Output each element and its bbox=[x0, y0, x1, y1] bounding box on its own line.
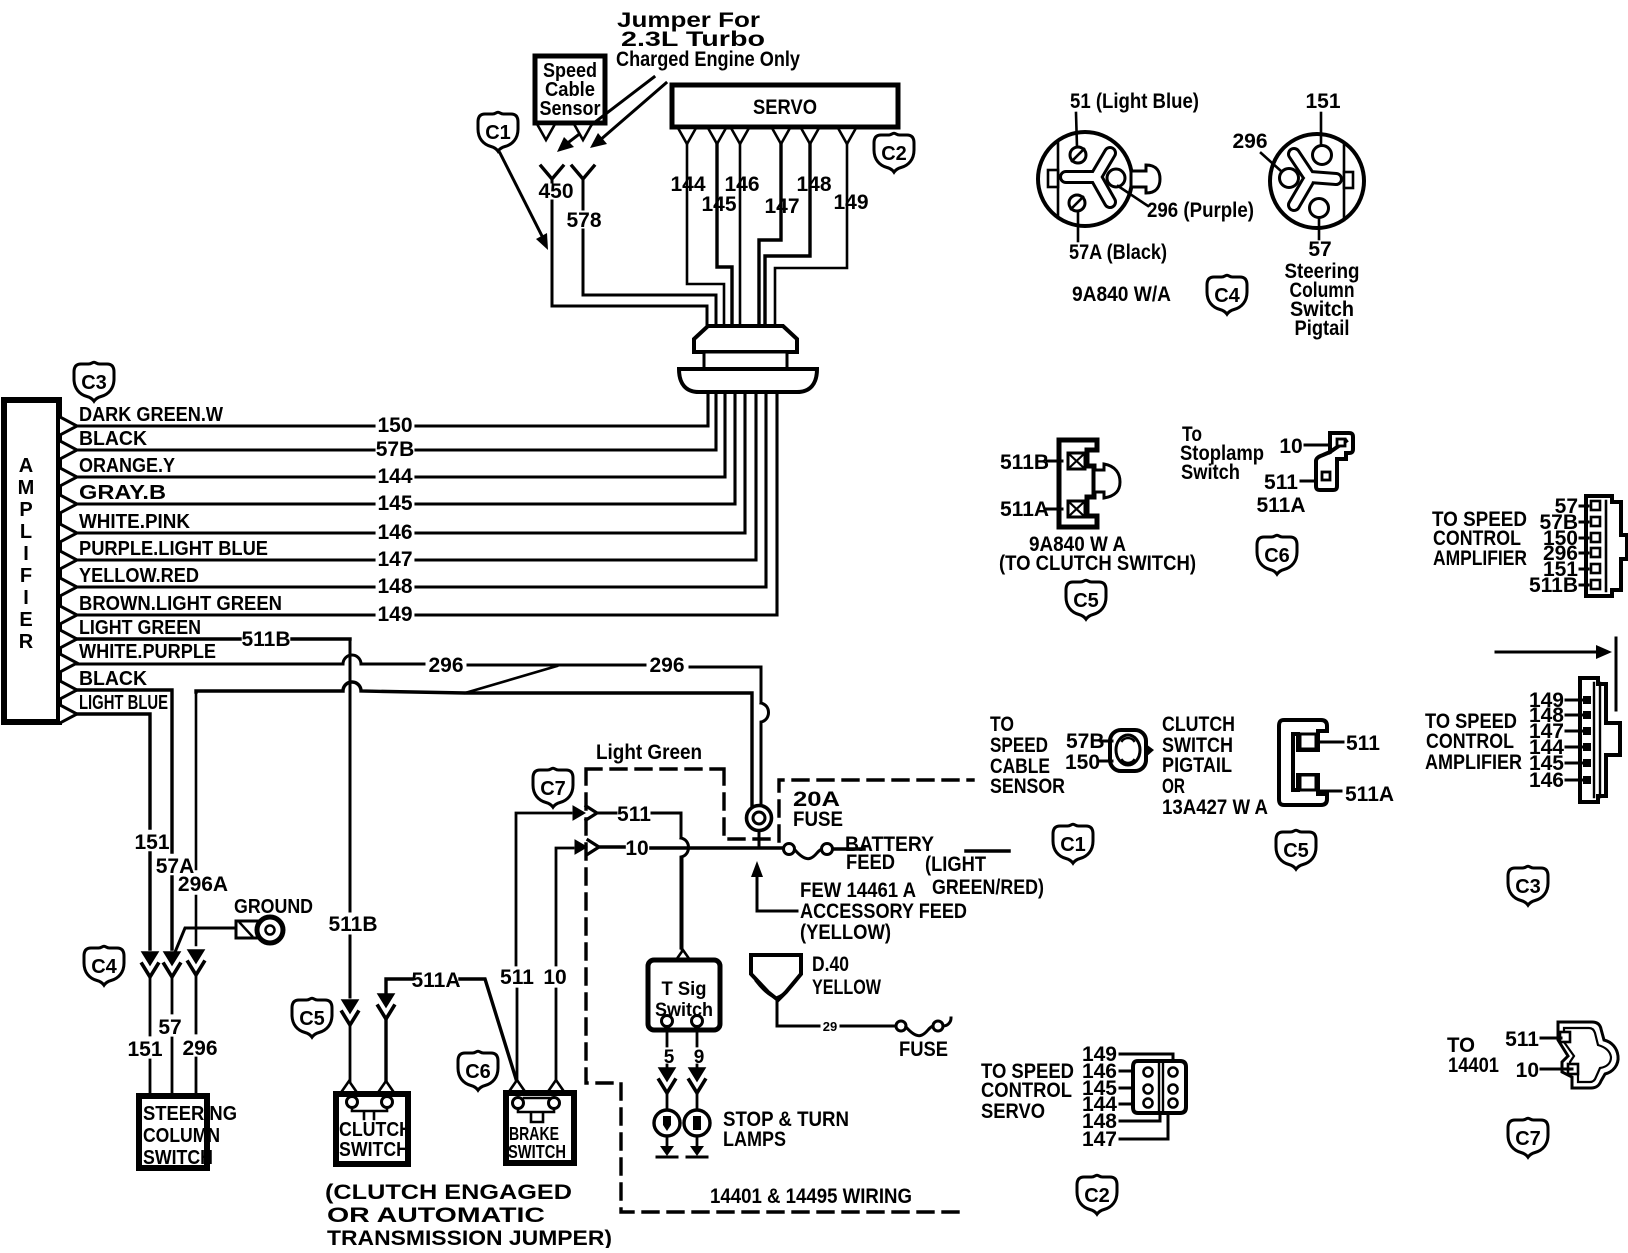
C7 arrows 10 bbox=[575, 840, 587, 854]
svg-text:SWITCH: SWITCH bbox=[143, 1146, 213, 1169]
label 10 14401 bbox=[1516, 1059, 1572, 1082]
label to speed control servo bbox=[981, 1060, 1074, 1123]
wire 147 bbox=[77, 392, 756, 560]
svg-text:LIGHT GREEN: LIGHT GREEN bbox=[79, 616, 201, 639]
pin label 150 upper bbox=[1543, 527, 1588, 550]
svg-text:FEW 14461 A: FEW 14461 A bbox=[800, 879, 916, 902]
svg-text:L: L bbox=[20, 521, 32, 543]
wire 150 bbox=[77, 392, 708, 426]
amplifier pin ORANGE.Y bbox=[60, 468, 77, 486]
label 296 plug bbox=[1232, 130, 1281, 171]
servo pin 145 bbox=[708, 128, 726, 144]
wire 146 bbox=[77, 392, 745, 533]
amplifier pin BLACK bbox=[60, 441, 77, 459]
svg-text:GRAY.B: GRAY.B bbox=[79, 481, 166, 504]
svg-text:C6: C6 bbox=[1264, 545, 1290, 567]
D.40 connector cup bbox=[751, 955, 801, 1000]
svg-text:F: F bbox=[20, 565, 32, 587]
svg-text:YELLOW: YELLOW bbox=[812, 976, 881, 999]
connector C7 shield left bbox=[533, 768, 573, 807]
svg-text:511B: 511B bbox=[1529, 574, 1578, 597]
pin label 144 lower bbox=[1529, 736, 1582, 759]
svg-text:511B: 511B bbox=[328, 913, 377, 936]
svg-text:C5: C5 bbox=[1073, 590, 1099, 612]
svg-text:149: 149 bbox=[377, 603, 412, 626]
svg-text:9A840 W/A: 9A840 W/A bbox=[1072, 283, 1171, 306]
wire 148 bbox=[77, 392, 766, 587]
clutch switch box bbox=[336, 1094, 412, 1164]
wire 450 chevron bbox=[541, 166, 563, 179]
svg-text:CONTROL: CONTROL bbox=[981, 1079, 1072, 1102]
wire 145 bbox=[77, 392, 735, 504]
wire 29 bbox=[777, 1002, 896, 1026]
servo wire 148 bbox=[765, 144, 810, 326]
wire 296 to switch bbox=[195, 975, 198, 1096]
speed cable sensor pin 1 bbox=[537, 124, 555, 140]
svg-text:T Sig: T Sig bbox=[662, 979, 707, 1000]
svg-text:144: 144 bbox=[377, 465, 412, 488]
svg-text:C6: C6 bbox=[465, 1061, 491, 1083]
svg-text:150: 150 bbox=[1065, 751, 1100, 774]
connector C6 shield right bbox=[1257, 535, 1297, 574]
svg-text:C1: C1 bbox=[485, 122, 511, 144]
wire 149 bbox=[77, 392, 777, 615]
label 150 c1 bbox=[1065, 751, 1112, 774]
svg-text:151: 151 bbox=[127, 1038, 162, 1061]
connector C1 shield right bbox=[1053, 824, 1093, 863]
svg-text:13A427 W A: 13A427 W A bbox=[1162, 796, 1268, 819]
wire 151 from amplifier bbox=[77, 714, 150, 949]
amplifier pin WHITE.PINK bbox=[60, 524, 77, 542]
svg-text:147: 147 bbox=[764, 195, 799, 218]
svg-text:PURPLE.LIGHT BLUE: PURPLE.LIGHT BLUE bbox=[79, 537, 268, 560]
svg-text:148: 148 bbox=[796, 173, 831, 196]
svg-text:14401 & 14495 WIRING: 14401 & 14495 WIRING bbox=[710, 1185, 912, 1208]
wire 450 bbox=[552, 180, 707, 326]
svg-text:(LIGHT: (LIGHT bbox=[925, 853, 986, 876]
svg-text:CONTROL: CONTROL bbox=[1426, 730, 1514, 753]
wire 57B bbox=[77, 392, 716, 450]
svg-text:(YELLOW): (YELLOW) bbox=[800, 921, 891, 944]
servo pin lines bbox=[1120, 1054, 1173, 1139]
label 51 light blue bbox=[1070, 90, 1199, 147]
svg-text:SWITCH: SWITCH bbox=[508, 1142, 566, 1162]
svg-text:SENSOR: SENSOR bbox=[990, 775, 1065, 798]
wire 10 brake bbox=[556, 848, 573, 1079]
svg-text:Switch: Switch bbox=[1181, 461, 1240, 484]
svg-text:CLUTCH: CLUTCH bbox=[1162, 713, 1235, 736]
amplifier pin BROWN.LIGHT GREEN bbox=[60, 606, 77, 624]
svg-text:145: 145 bbox=[701, 193, 736, 216]
amplifier box bbox=[4, 400, 59, 722]
svg-text:511A: 511A bbox=[1345, 783, 1394, 806]
wire 57 to switch bbox=[171, 977, 174, 1096]
svg-text:AMPLIFIER: AMPLIFIER bbox=[1425, 751, 1522, 774]
label D.40 YELLOW bbox=[812, 953, 881, 999]
svg-text:511: 511 bbox=[1264, 471, 1298, 494]
pin label 145 lower bbox=[1529, 752, 1582, 775]
clutch switch pigtail connector bbox=[1279, 720, 1327, 805]
svg-text:296: 296 bbox=[182, 1037, 217, 1060]
amplifier pin LIGHT BLUE bbox=[60, 705, 77, 723]
label 20A FUSE bbox=[793, 788, 843, 831]
label light green red bbox=[925, 853, 1044, 899]
svg-text:SERVO: SERVO bbox=[753, 96, 817, 119]
wire 511 brake bbox=[516, 813, 571, 1079]
svg-text:511B: 511B bbox=[241, 628, 290, 651]
svg-text:296: 296 bbox=[1232, 130, 1267, 153]
svg-text:10: 10 bbox=[625, 837, 648, 860]
stop turn lamp 2 bbox=[684, 1092, 710, 1136]
svg-text:FUSE: FUSE bbox=[793, 808, 843, 831]
wire 296 hop at fuse drop bbox=[761, 703, 769, 805]
harness grommet flange bbox=[679, 369, 817, 392]
svg-text:578: 578 bbox=[566, 209, 601, 232]
connector C3 shield right bbox=[1508, 866, 1548, 905]
connector C5 shield left bbox=[292, 998, 332, 1037]
svg-text:57A (Black): 57A (Black) bbox=[1069, 241, 1167, 264]
svg-text:R: R bbox=[19, 631, 34, 653]
label steering column switch pigtail bbox=[1285, 260, 1360, 340]
connector C4 shield left bbox=[84, 946, 124, 985]
svg-text:151: 151 bbox=[134, 831, 169, 854]
svg-text:Light Green: Light Green bbox=[596, 741, 702, 764]
label 511A pigtail bbox=[1318, 783, 1394, 806]
wire 511B to clutch bbox=[349, 1025, 352, 1082]
svg-text:D.40: D.40 bbox=[812, 953, 849, 976]
svg-text:BLACK: BLACK bbox=[79, 667, 147, 690]
svg-text:148: 148 bbox=[377, 575, 412, 598]
svg-text:296 (Purple): 296 (Purple) bbox=[1147, 199, 1254, 222]
wire 511 to t sig switch bbox=[681, 857, 684, 949]
label to speed cable sensor bbox=[990, 713, 1065, 798]
svg-text:51 (Light Blue): 51 (Light Blue) bbox=[1070, 90, 1199, 113]
servo wire 144 bbox=[687, 144, 724, 326]
steering column switch box bbox=[139, 1096, 237, 1169]
svg-text:WHITE.PINK: WHITE.PINK bbox=[79, 510, 190, 533]
pin label 511B upper bbox=[1529, 574, 1588, 597]
amplifier label bbox=[18, 455, 35, 653]
svg-text:P: P bbox=[19, 499, 32, 521]
svg-text:C4: C4 bbox=[91, 956, 117, 978]
wire 511 hop over 10 bbox=[681, 838, 689, 948]
wire 10 c7 bbox=[601, 847, 864, 849]
servo wire 145 bbox=[717, 144, 732, 326]
clutch switch pin 1 bbox=[340, 1081, 358, 1094]
wire 511A bbox=[386, 979, 516, 1082]
svg-text:151: 151 bbox=[1305, 90, 1340, 113]
svg-text:I: I bbox=[23, 543, 29, 565]
wire 511B horizontal bbox=[77, 637, 350, 640]
wire 57A from amplifier bbox=[77, 690, 172, 949]
wire 151 to switch bbox=[149, 977, 152, 1096]
servo pin 147 bbox=[772, 128, 790, 144]
label 511 stoplamp bbox=[1264, 471, 1316, 494]
connector C3 shield bbox=[74, 362, 114, 401]
lamp ground 1 bbox=[657, 1136, 677, 1157]
label to speed control amplifier upper bbox=[1432, 508, 1527, 570]
svg-text:SPEED: SPEED bbox=[990, 734, 1048, 757]
svg-text:511: 511 bbox=[1346, 732, 1380, 755]
svg-text:57B: 57B bbox=[1066, 730, 1105, 753]
amplifier pin PURPLE.LIGHT BLUE bbox=[60, 551, 77, 569]
clutch pigtail connector bbox=[1059, 440, 1120, 527]
connector C7 shield right bbox=[1508, 1118, 1548, 1157]
label to speed control amplifier lower bbox=[1425, 710, 1522, 774]
wire 296A horizontal bbox=[196, 682, 752, 807]
svg-text:C5: C5 bbox=[1283, 840, 1309, 862]
label 511 pigtail bbox=[1318, 732, 1380, 755]
connector C5 shield right bbox=[1276, 830, 1316, 869]
amplifier pin BLACK2 bbox=[60, 681, 77, 699]
svg-text:SERVO: SERVO bbox=[981, 1100, 1045, 1123]
label 57A black bbox=[1069, 211, 1167, 264]
servo pin 146 bbox=[731, 128, 749, 144]
svg-text:GREEN/RED): GREEN/RED) bbox=[932, 876, 1044, 899]
svg-text:OR AUTOMATIC: OR AUTOMATIC bbox=[327, 1204, 545, 1227]
svg-text:146: 146 bbox=[1529, 769, 1564, 792]
amplifier connector upper bbox=[1586, 496, 1627, 596]
servo connector c2 bbox=[1133, 1061, 1186, 1113]
label 296 purple bbox=[1118, 186, 1254, 222]
connector arrows steering column wires bbox=[142, 950, 204, 977]
fuse link 29 bbox=[896, 1018, 951, 1036]
jumper arrow to wire 450 bbox=[557, 77, 654, 152]
svg-text:BLACK: BLACK bbox=[79, 427, 147, 450]
svg-text:AMPLIFIER: AMPLIFIER bbox=[1433, 547, 1527, 570]
amplifier pin DARK GREEN.W bbox=[60, 417, 77, 435]
label 511B c5 bbox=[1000, 451, 1062, 474]
wire 511B vertical bbox=[349, 639, 352, 997]
speed cable sensor pigtail connector bbox=[1110, 730, 1154, 771]
svg-text:(CLUTCH ENGAGED: (CLUTCH ENGAGED bbox=[325, 1181, 572, 1204]
servo box bbox=[672, 85, 898, 127]
20A fuse circle bbox=[747, 806, 772, 849]
svg-text:I: I bbox=[23, 587, 29, 609]
svg-text:LIGHT BLUE: LIGHT BLUE bbox=[79, 691, 168, 714]
label battery feed bbox=[845, 833, 934, 874]
pin label 57 upper bbox=[1555, 495, 1588, 518]
servo wire 146 bbox=[739, 144, 742, 326]
wire 296 merge diagonal bbox=[465, 666, 557, 693]
label to 14401 bbox=[1447, 1034, 1499, 1077]
label 57 plug bbox=[1308, 219, 1331, 261]
servo pin 148 bbox=[801, 128, 819, 144]
connector C2 shield bbox=[874, 133, 914, 172]
svg-text:TRANSMISSION JUMPER): TRANSMISSION JUMPER) bbox=[327, 1227, 612, 1248]
svg-text:FEED: FEED bbox=[846, 851, 895, 874]
label 511A c5 bbox=[1000, 498, 1062, 521]
amplifier pin YELLOW.RED bbox=[60, 578, 77, 596]
svg-text:10: 10 bbox=[1279, 435, 1302, 458]
svg-text:296A: 296A bbox=[178, 873, 228, 896]
connector C5 shield mid bbox=[1066, 580, 1106, 619]
svg-text:SWITCH: SWITCH bbox=[339, 1138, 409, 1161]
wire 296 bbox=[77, 655, 761, 703]
svg-text:LAMPS: LAMPS bbox=[723, 1128, 786, 1151]
pin label 147 lower bbox=[1529, 720, 1582, 743]
svg-text:147: 147 bbox=[1082, 1128, 1117, 1151]
svg-text:145: 145 bbox=[377, 492, 412, 515]
svg-text:9: 9 bbox=[694, 1047, 705, 1068]
label light green red overline bbox=[966, 849, 1009, 853]
svg-text:PIGTAIL: PIGTAIL bbox=[1162, 754, 1232, 777]
svg-text:511: 511 bbox=[617, 803, 651, 826]
svg-text:E: E bbox=[19, 609, 32, 631]
svg-text:511A: 511A bbox=[411, 969, 460, 992]
svg-text:450: 450 bbox=[538, 180, 573, 203]
pin label 149 lower bbox=[1529, 689, 1582, 712]
pin label 146 lower bbox=[1529, 769, 1582, 792]
svg-text:296: 296 bbox=[428, 654, 463, 677]
svg-text:150: 150 bbox=[377, 414, 412, 437]
label accessory feed bbox=[800, 879, 967, 944]
svg-text:(TO CLUTCH SWITCH): (TO CLUTCH SWITCH) bbox=[999, 552, 1196, 575]
svg-text:C2: C2 bbox=[1084, 1185, 1110, 1207]
svg-text:C3: C3 bbox=[81, 372, 107, 394]
speed cable sensor pin 2 bbox=[574, 124, 592, 140]
connector C1 shield bbox=[478, 112, 518, 151]
label 57B c1 bbox=[1066, 730, 1112, 753]
servo pin 149 bbox=[838, 128, 856, 144]
svg-text:10: 10 bbox=[1516, 1059, 1539, 1082]
C7 arrows 511 bbox=[573, 806, 585, 820]
svg-text:C4: C4 bbox=[1214, 285, 1240, 307]
wire 511 c7 bbox=[598, 813, 681, 838]
svg-text:147: 147 bbox=[377, 548, 412, 571]
pin label 148 lower bbox=[1529, 704, 1582, 727]
svg-text:146: 146 bbox=[377, 521, 412, 544]
brake switch pin 1 bbox=[508, 1080, 526, 1093]
jumper note bbox=[616, 9, 800, 71]
steering column connector plug bbox=[1038, 132, 1160, 226]
svg-text:C7: C7 bbox=[1515, 1128, 1541, 1150]
svg-text:511: 511 bbox=[500, 966, 534, 989]
amplifier pin WHITE.PURPLE bbox=[60, 654, 77, 672]
14401 connector bbox=[1558, 1022, 1618, 1088]
ground ring terminal bbox=[236, 917, 283, 943]
jumper arrow to wire 578 bbox=[590, 83, 666, 148]
svg-text:C7: C7 bbox=[540, 778, 566, 800]
svg-text:GROUND: GROUND bbox=[234, 895, 313, 918]
servo wire 149 bbox=[775, 144, 847, 326]
label 511 14401 bbox=[1505, 1028, 1561, 1051]
lamp wire arrows bbox=[659, 1068, 705, 1093]
clutch note bbox=[325, 1181, 612, 1250]
amplifier pin GRAY.B bbox=[60, 495, 77, 513]
wire 144 bbox=[77, 392, 725, 477]
label 151 plug bbox=[1305, 90, 1340, 145]
amplifier pin LIGHT GREEN bbox=[60, 630, 77, 648]
svg-text:OR: OR bbox=[1162, 775, 1185, 798]
wire 5 bbox=[666, 1027, 669, 1068]
svg-text:10: 10 bbox=[543, 966, 566, 989]
harness grommet middle bbox=[704, 352, 787, 369]
svg-text:146: 146 bbox=[724, 173, 759, 196]
svg-text:TO: TO bbox=[990, 713, 1014, 736]
svg-text:STEERING: STEERING bbox=[143, 1102, 237, 1125]
connector C2 shield bottom bbox=[1077, 1175, 1117, 1214]
label 10 stoplamp bbox=[1279, 435, 1328, 458]
connector C4 shield right bbox=[1207, 275, 1247, 314]
svg-text:57: 57 bbox=[158, 1016, 181, 1039]
svg-text:DARK GREEN.W: DARK GREEN.W bbox=[79, 403, 224, 426]
svg-text:ACCESSORY FEED: ACCESSORY FEED bbox=[800, 900, 967, 923]
svg-text:ORANGE.Y: ORANGE.Y bbox=[79, 454, 175, 477]
fuse link battery feed bbox=[784, 844, 833, 859]
svg-text:M: M bbox=[18, 477, 35, 499]
stop turn lamp 1 bbox=[654, 1092, 680, 1136]
svg-text:511B: 511B bbox=[1000, 451, 1049, 474]
svg-text:BROWN.LIGHT GREEN: BROWN.LIGHT GREEN bbox=[79, 592, 282, 615]
svg-text:Sensor: Sensor bbox=[540, 98, 601, 120]
svg-text:COLUMN: COLUMN bbox=[143, 1124, 220, 1147]
wire 578 bbox=[583, 180, 716, 326]
svg-text:WHITE.PURPLE: WHITE.PURPLE bbox=[79, 640, 216, 663]
accessory feed arrow bbox=[751, 861, 797, 911]
steering column pigtail plug bbox=[1270, 134, 1364, 228]
stoplamp connector bbox=[1316, 433, 1353, 490]
svg-text:511: 511 bbox=[1505, 1028, 1539, 1051]
svg-text:Pigtail: Pigtail bbox=[1295, 317, 1350, 340]
svg-text:A: A bbox=[19, 455, 33, 477]
svg-text:YELLOW.RED: YELLOW.RED bbox=[79, 564, 199, 587]
connector C6 shield left bbox=[458, 1051, 498, 1090]
svg-text:511A: 511A bbox=[1000, 498, 1049, 521]
label to stoplamp switch bbox=[1180, 423, 1264, 484]
wire 578 chevron bbox=[572, 166, 594, 179]
t sig switch pin bbox=[676, 950, 690, 960]
wire 9 bbox=[696, 1027, 699, 1068]
pin label 296 upper bbox=[1543, 542, 1588, 565]
svg-text:57B: 57B bbox=[376, 438, 415, 461]
direction arrow right bbox=[1496, 638, 1616, 710]
svg-text:C2: C2 bbox=[881, 143, 907, 165]
speed cable sensor box bbox=[535, 56, 605, 123]
svg-text:FUSE: FUSE bbox=[899, 1038, 948, 1061]
brake switch pin 2 bbox=[547, 1080, 565, 1093]
amplifier connector lower bbox=[1580, 678, 1620, 802]
svg-text:57: 57 bbox=[1308, 238, 1331, 261]
svg-text:Charged Engine Only: Charged Engine Only bbox=[616, 48, 800, 71]
ground wire bbox=[173, 928, 236, 957]
svg-text:296: 296 bbox=[649, 654, 684, 677]
servo wire 147 bbox=[759, 144, 781, 326]
servo pin 144 bbox=[678, 128, 696, 144]
lamp ground 2 bbox=[687, 1136, 707, 1157]
wire 296A vertical bbox=[195, 691, 198, 945]
dashed harness boundary bbox=[586, 769, 973, 1212]
pin label 151 upper bbox=[1543, 558, 1588, 581]
svg-text:C3: C3 bbox=[1515, 876, 1541, 898]
label stop turn lamps bbox=[723, 1108, 849, 1151]
clutch arrows bbox=[342, 994, 394, 1025]
svg-text:14401: 14401 bbox=[1448, 1054, 1499, 1077]
brake switch box bbox=[506, 1093, 574, 1163]
harness grommet upper bbox=[694, 326, 797, 352]
svg-text:29: 29 bbox=[823, 1019, 837, 1034]
svg-text:C1: C1 bbox=[1060, 834, 1086, 856]
pin label 57B upper bbox=[1539, 511, 1588, 534]
svg-text:149: 149 bbox=[833, 191, 868, 214]
svg-text:C5: C5 bbox=[299, 1008, 325, 1030]
svg-text:BRAKE: BRAKE bbox=[509, 1124, 559, 1144]
C1 arrow bbox=[500, 153, 548, 250]
clutch switch pin 2 bbox=[377, 1081, 395, 1094]
svg-text:511A: 511A bbox=[1256, 494, 1305, 517]
svg-text:5: 5 bbox=[664, 1047, 675, 1068]
t sig switch box bbox=[648, 960, 720, 1030]
